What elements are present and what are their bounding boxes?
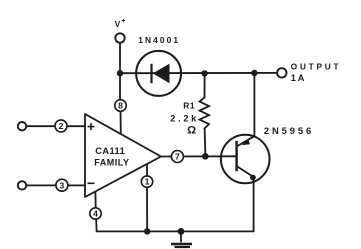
svg-text:4: 4 [93,209,98,219]
svg-text:7: 7 [175,152,180,162]
svg-text:3: 3 [60,180,65,190]
svg-text:2.2k: 2.2k [170,113,199,123]
svg-text:+: + [121,18,125,25]
svg-text:8: 8 [118,101,123,111]
svg-text:1A: 1A [291,73,306,83]
svg-text:FAMILY: FAMILY [94,158,129,168]
svg-text:R1: R1 [183,100,195,110]
svg-text:OUTPUT: OUTPUT [291,62,341,71]
svg-text:Ω: Ω [187,124,196,136]
svg-text:1: 1 [145,177,150,187]
svg-text:V: V [115,19,121,29]
svg-text:1N4001: 1N4001 [138,35,180,45]
svg-text:2: 2 [59,121,64,131]
svg-text:CA111: CA111 [95,146,125,156]
svg-text:2N5956: 2N5956 [264,125,314,136]
